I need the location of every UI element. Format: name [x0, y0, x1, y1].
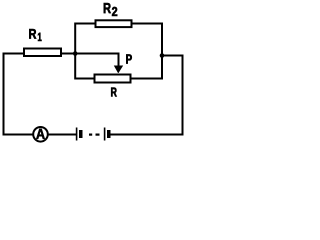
wire node A up to R2 branch — [75, 24, 95, 55]
wire ammeter to battery — [48, 134, 77, 136]
wire node B to top right corner — [162, 55, 183, 57]
wire potentiometer right lead up to node B — [131, 56, 163, 79]
resistor R2 — [96, 20, 132, 27]
label P — [126, 54, 132, 63]
wire R2 right lead down to node B — [131, 24, 162, 56]
label R1 — [29, 29, 36, 39]
battery — [76, 128, 111, 141]
node B junction dot — [160, 53, 165, 58]
node A junction dot — [73, 51, 78, 56]
wire left vertical — [3, 53, 5, 136]
resistor R1 — [24, 49, 61, 57]
ammeter A — [33, 127, 48, 142]
wire bottom left to ammeter — [3, 134, 34, 136]
wire right vertical — [182, 55, 184, 136]
label R — [111, 88, 117, 97]
wire R1 left lead — [3, 53, 24, 55]
wire node A down to potentiometer left lead — [75, 53, 94, 79]
wire battery to bottom right corner — [111, 134, 184, 136]
wire R1 right lead to wiper corner — [62, 54, 119, 67]
label R2 — [104, 3, 111, 13]
potentiometer R — [95, 75, 131, 83]
wiper P arrow — [114, 54, 123, 74]
